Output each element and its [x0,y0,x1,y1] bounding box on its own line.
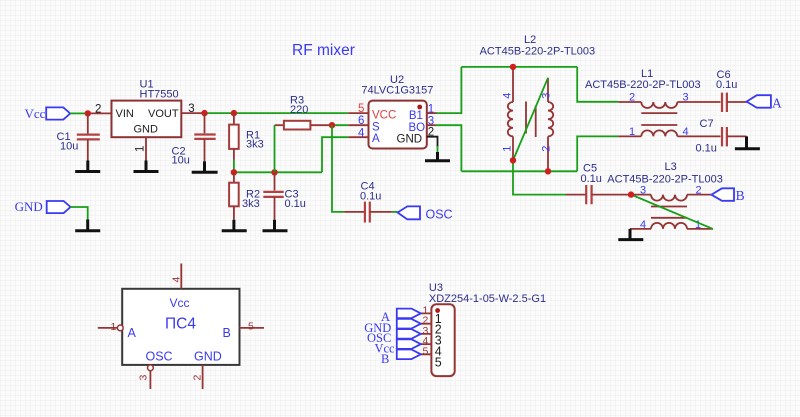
pin 4 stub (A) [348,136,368,138]
node junction C2 [201,110,207,116]
svg-text:2: 2 [95,104,101,116]
ground (C3) [263,220,288,231]
svg-text:2: 2 [696,185,702,197]
wire GND port [71,207,88,220]
wire diagonal C5 node to L3 pin1 [631,195,713,229]
wire bottom rail [461,170,577,172]
pin 5 (PC4 B) [240,327,265,329]
wire node row [234,171,322,173]
wire diagonal L2 pin1 to pin3 [513,78,548,161]
core lines [651,207,687,218]
wire node to U1 VIN [86,112,112,114]
svg-text:4: 4 [171,277,183,283]
port Vcc (input flag) [24,106,70,121]
wire top rail [461,66,577,68]
svg-text:C7: C7 [700,118,714,130]
capacitor C1 [57,113,100,160]
svg-text:ACT45B-220-2P-TL003: ACT45B-220-2P-TL003 [607,173,723,185]
wire right rail upper (to L1 pin2) [577,67,618,102]
wire R3 right to U2 pin6 [332,124,348,126]
wire S node down to C4 [332,125,344,212]
svg-text:L2: L2 [524,34,536,46]
ground (L3 pin4) [618,229,643,240]
wire U2 pin1 up to top rail [437,67,462,113]
left winding pin4->pin1 [512,67,514,102]
wire Vcc port to node [70,112,86,114]
svg-text:3: 3 [640,185,646,197]
pin 2 (PC4 GND) [202,365,204,389]
svg-text:3: 3 [428,115,434,127]
node junction top rail / L2 pin4 [510,64,516,70]
svg-text:VOUT: VOUT [148,108,179,120]
svg-text:L3: L3 [665,161,677,173]
pin 2 stub U3 [415,323,432,325]
svg-text:ACT45B-220-2P-TL003: ACT45B-220-2P-TL003 [585,79,701,91]
svg-text:B: B [223,326,231,340]
wire C4 to OSC port [392,211,398,213]
pin 1 GND of U1 [145,137,147,160]
pin 3 stub U3 [415,333,432,335]
port GND (input flag) [15,199,71,214]
node junction C5/L3 [628,191,634,197]
bottom winding pin1->pin4 [618,135,641,137]
svg-text:5: 5 [248,321,254,333]
svg-text:1: 1 [629,126,635,138]
svg-text:B: B [381,352,389,366]
pin 5 stub (VCC) [348,112,368,114]
wire pin2 green segment [437,146,439,154]
ground (U2 pin2) [425,152,450,161]
resistor R1 [229,113,264,159]
wire R1 bottom to node row [233,160,235,173]
wire R3 left down to node row [274,125,276,172]
connector U3 XDZ254-1-05-W-2.5-G1 [429,282,546,376]
svg-text:0.1u: 0.1u [696,143,717,155]
port A (points left) [747,95,782,110]
svg-text:GND: GND [194,350,222,364]
pin 4 (PC4 Vcc) [180,264,182,289]
svg-text:1: 1 [695,219,701,231]
capacitor C2 [172,113,216,166]
pin 3 (PC4 OSC, inverted) [148,365,154,371]
svg-text:2: 2 [428,127,434,139]
svg-text:ACT45B-220-2P-TL003: ACT45B-220-2P-TL003 [480,46,596,58]
wire U2 pin3 down to bottom rail [436,125,462,171]
svg-text:0.1u: 0.1u [716,79,737,91]
svg-text:3k3: 3k3 [242,198,260,210]
pin 3 stub (BO) [427,124,436,126]
svg-text:2: 2 [629,91,635,103]
node junction C3 [271,169,277,175]
svg-text:Vcc: Vcc [170,296,190,310]
svg-text:GND: GND [15,199,43,214]
port A flag (U3 pin1) [397,309,421,319]
svg-text:3: 3 [683,91,689,103]
pin 6 stub (S) [348,124,368,126]
capacitor C6 [716,69,747,112]
core lines [526,102,536,138]
wire L2 pin1 down to C5 [513,160,566,194]
ground (C2) [192,161,218,172]
pin 4 stub U3 [415,343,432,345]
svg-text:3k3: 3k3 [246,139,264,151]
svg-text:4: 4 [358,127,365,139]
svg-text:OSC: OSC [426,208,453,222]
svg-text:5: 5 [435,355,442,369]
resistor R2 [229,172,260,219]
svg-text:74LVC1G3157: 74LVC1G3157 [361,85,433,97]
top winding pin2->pin3 [618,101,641,103]
pin 1 stub (B1) [427,112,437,114]
svg-text:A: A [128,326,137,340]
ground (C7) [735,136,760,148]
svg-text:0.1u: 0.1u [360,191,381,203]
svg-text:3: 3 [541,93,553,99]
port OSC flag (U3 pin3) [397,329,421,339]
port GND flag (U3 pin2) [397,319,421,329]
svg-text:5: 5 [358,103,364,115]
svg-text:B1: B1 [409,110,423,122]
svg-text:220: 220 [290,104,308,116]
svg-text:3: 3 [138,375,150,381]
capacitor C7 [696,118,747,155]
svg-text:4: 4 [683,126,689,138]
ground (R2) [222,220,247,231]
svg-text:Vcc: Vcc [24,106,45,121]
svg-text:1: 1 [502,146,514,152]
svg-text:RF mixer: RF mixer [292,42,355,59]
svg-text:A: A [772,96,782,111]
ground (U1) [134,161,159,172]
node junction R1 top [231,110,237,116]
svg-text:1: 1 [428,103,434,115]
wire VOUT rail to U2 pin5 [205,112,349,114]
svg-text:3: 3 [188,103,194,115]
svg-text:10u: 10u [172,155,190,167]
ground (GND port) [75,220,100,231]
wire A pin to node row [322,137,348,172]
pin 1 stub U3 [415,312,432,314]
port B (points left) [711,188,744,203]
svg-text:0.1u: 0.1u [285,198,306,210]
capacitor C3 [263,172,306,219]
svg-text:B: B [736,188,745,203]
svg-text:0.1u: 0.1u [581,173,602,185]
svg-text:6: 6 [358,115,364,127]
block ПС4 [122,289,239,365]
resistor R3 [275,95,333,130]
svg-text:A: A [372,133,380,145]
svg-text:BO: BO [409,122,426,134]
pin 5 stub U3 [415,353,432,355]
ground (C1) [75,161,100,172]
node junction L2 pin1 [510,157,516,163]
transformer L2 ACT45B-220-2P-TL003 [480,34,596,171]
port OSC (output flag, points left) [398,206,453,221]
node junction R3/S/C4 [329,122,335,128]
svg-text:10u: 10u [60,141,78,153]
svg-text:HT7550: HT7550 [140,89,179,101]
bottom winding pin4->pin1 [630,228,651,230]
node junction R1/R2 [231,169,237,175]
svg-text:XDZ254-1-05-W-2.5-G1: XDZ254-1-05-W-2.5-G1 [429,293,546,305]
right winding pin3->pin2 [547,78,549,102]
svg-text:ПС4: ПС4 [165,316,196,333]
top winding pin3->pin2 [631,194,651,196]
regulator U1 HT7550 [112,79,182,138]
svg-text:1: 1 [111,321,117,333]
svg-text:5: 5 [423,345,429,357]
svg-text:1: 1 [135,146,147,152]
node junction L2 pin2 / bottom rail [545,168,551,174]
capacitor C4 [344,181,392,223]
op-amp/mux U2 74LVC1G3157 [361,74,433,149]
svg-text:VCC: VCC [372,110,396,122]
port Vcc flag (U3 pin4) [397,339,421,349]
svg-text:4: 4 [502,93,514,99]
port B flag (U3 pin5) [397,350,421,360]
pin 2 wire (GND) black [427,137,438,147]
wire right rail lower (to L1 pin1) [577,136,618,171]
svg-text:GND: GND [134,124,159,136]
svg-text:OSC: OSC [146,350,173,364]
svg-text:S: S [372,121,380,133]
svg-text:GND: GND [397,134,423,146]
capacitor C5 [566,163,631,205]
pin 1 (PC4 A, inverted) [98,327,118,329]
svg-text:VIN: VIN [116,108,134,120]
core lines [641,113,677,125]
node junction Vcc/C1 [85,110,91,116]
transformer L3 ACT45B-220-2P-TL003 [607,161,723,231]
svg-text:2: 2 [192,375,204,381]
svg-text:4: 4 [640,219,646,231]
svg-text:2: 2 [541,146,553,152]
pin 3 VOUT stub [181,112,204,114]
transformer L1 ACT45B-220-2P-TL003 [585,68,721,138]
